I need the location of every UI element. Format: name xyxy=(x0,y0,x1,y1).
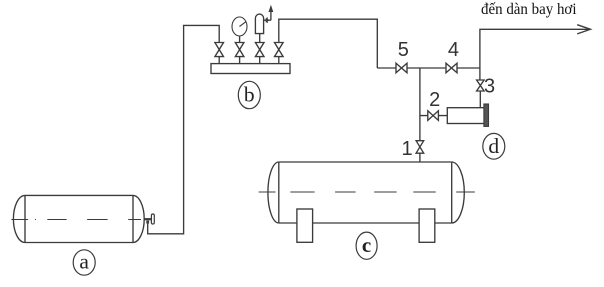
vent arrow up xyxy=(269,5,274,12)
label c xyxy=(356,232,377,259)
main line xyxy=(377,67,480,69)
wire xyxy=(259,57,261,64)
tank a outlet valve fitting xyxy=(144,214,154,224)
manifold valve B1 xyxy=(215,43,224,57)
svg-text:đến dàn bay hơi: đến dàn bay hơi xyxy=(481,1,577,18)
label a xyxy=(73,250,95,276)
safety valve vent wire xyxy=(264,9,271,21)
tank c body xyxy=(268,162,464,223)
svg-text:2: 2 xyxy=(429,89,440,111)
cylinder d body xyxy=(447,108,484,124)
wire tank a to riser xyxy=(148,25,220,233)
manifold valve B3 xyxy=(255,43,264,57)
svg-text:5: 5 xyxy=(398,39,409,61)
wire riser to evaporator xyxy=(480,29,590,68)
svg-text:4: 4 xyxy=(448,39,459,61)
valve 4 xyxy=(446,63,457,73)
valve 5 xyxy=(396,63,407,73)
tank a body xyxy=(13,195,144,242)
svg-text:c: c xyxy=(362,233,371,257)
label b xyxy=(238,81,260,108)
wire xyxy=(278,57,280,64)
cylinder d flange xyxy=(484,104,489,126)
wire manifold to main line xyxy=(279,19,378,68)
tank c right leg xyxy=(419,209,435,242)
branch down from main line xyxy=(419,68,421,141)
wire valve 1 to tank c xyxy=(419,153,421,162)
svg-text:1: 1 xyxy=(402,138,413,160)
manifold valve B2 xyxy=(235,43,244,57)
arrowhead to evaporator xyxy=(577,25,590,34)
wire xyxy=(218,57,220,64)
wire valve 3 to cylinder d xyxy=(479,91,481,108)
valve 2 xyxy=(428,111,439,121)
pressure gauge xyxy=(232,17,247,43)
wire xyxy=(239,57,241,64)
tank c left leg xyxy=(297,209,313,242)
svg-text:d: d xyxy=(488,134,499,158)
manifold bar xyxy=(211,64,290,74)
manifold valve B4 xyxy=(275,43,284,57)
valve 1 xyxy=(416,141,424,154)
svg-text:a: a xyxy=(79,250,89,274)
vent arrow right xyxy=(266,18,270,23)
tank c centerline xyxy=(259,191,475,193)
svg-text:3: 3 xyxy=(484,75,495,97)
tank a centerline xyxy=(11,219,141,221)
wire down to valve 3 xyxy=(479,68,481,80)
valve 3 xyxy=(477,80,485,91)
label d xyxy=(483,133,505,159)
svg-text:b: b xyxy=(244,83,255,107)
safety valve xyxy=(255,14,263,42)
valve 2 branch wire xyxy=(420,115,447,117)
